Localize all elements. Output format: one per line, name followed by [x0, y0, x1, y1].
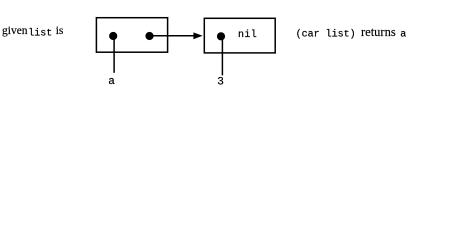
svg-text:returns: returns: [361, 25, 396, 39]
cons cell box 1: [96, 18, 167, 53]
arrowhead: [193, 32, 202, 39]
svg-text:is: is: [56, 25, 64, 37]
leader wire from car dot of cell 1 down to label a: [113, 36, 115, 73]
svg-text:given: given: [2, 25, 28, 37]
leader wire from car dot of cell 2 down to label 3: [221, 36, 223, 75]
cdr dot of cell 1: [145, 32, 153, 40]
svg-text:a: a: [400, 29, 406, 40]
pointer arrow wire from cdr of cell 1 to cell 2: [150, 35, 195, 37]
svg-text:a: a: [108, 76, 115, 88]
svg-text:list: list: [28, 27, 52, 39]
svg-text:nil: nil: [238, 29, 257, 41]
cons cell box 2: [204, 18, 275, 53]
car dot of cell 2: [217, 32, 225, 40]
svg-text:3: 3: [217, 77, 224, 89]
car dot of cell 1: [109, 32, 117, 40]
svg-text:(car list): (car list): [296, 28, 356, 40]
